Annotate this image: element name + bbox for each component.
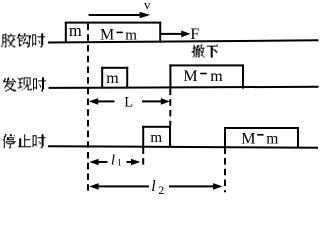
block m (row 3) [142,126,171,148]
distance arrow l1 (double-headed) [89,159,140,166]
force arrow F [161,31,191,38]
svg-text:M: M [183,68,197,85]
svg-text:1: 1 [117,159,122,169]
label M−m (row 3 block) [241,131,278,148]
svg-text:m: m [106,70,119,87]
distance arrow l2 (double-headed) [89,183,222,190]
svg-text:m: m [125,28,137,44]
block M−m (row 3) [224,127,299,147]
svg-text:m: m [69,21,82,40]
distance arrow L (double-headed) [89,98,170,105]
svg-text:F: F [190,26,199,43]
label M−m (row 2 block) [183,68,223,85]
label l2 [151,178,164,197]
svg-text:2: 2 [158,183,164,196]
ground line (row 2) [49,86,319,89]
dashed line x≈225 (rear of M−m at stopping time) [224,147,226,192]
svg-text:l: l [111,152,115,168]
block M−m (row 2) [169,64,244,88]
block outline m and M−m (row 1) [65,22,161,43]
velocity arrow v [89,12,151,19]
timeline label 停止时 (at stopping time) [3,134,46,148]
dashed reference line x≈170 (front edge at discovery time) [169,89,171,126]
block m (row 2) [101,67,128,89]
dashed reference line x≈88 (rear edge at hooking time) [87,24,89,193]
svg-text:m: m [150,130,162,146]
svg-text:M: M [241,131,255,148]
svg-text:l: l [151,178,156,195]
label l1 [111,152,122,168]
label M−m (row 1 block) [100,27,137,44]
svg-text:L: L [124,95,133,111]
timeline label 胶钩时 (at hooking time) [1,33,45,47]
svg-text:m: m [266,131,278,148]
ground line (row 3) [48,145,318,149]
timeline label 发现时 (at discovery time) [3,77,46,91]
svg-text:M: M [100,27,114,44]
svg-text:m: m [210,68,223,85]
ground line (row 1) [48,39,319,43]
dashed line x≈143 (rear of m at stopping time) [142,147,144,166]
label 撤下 (removed) [192,45,218,58]
svg-text:v: v [144,0,151,12]
